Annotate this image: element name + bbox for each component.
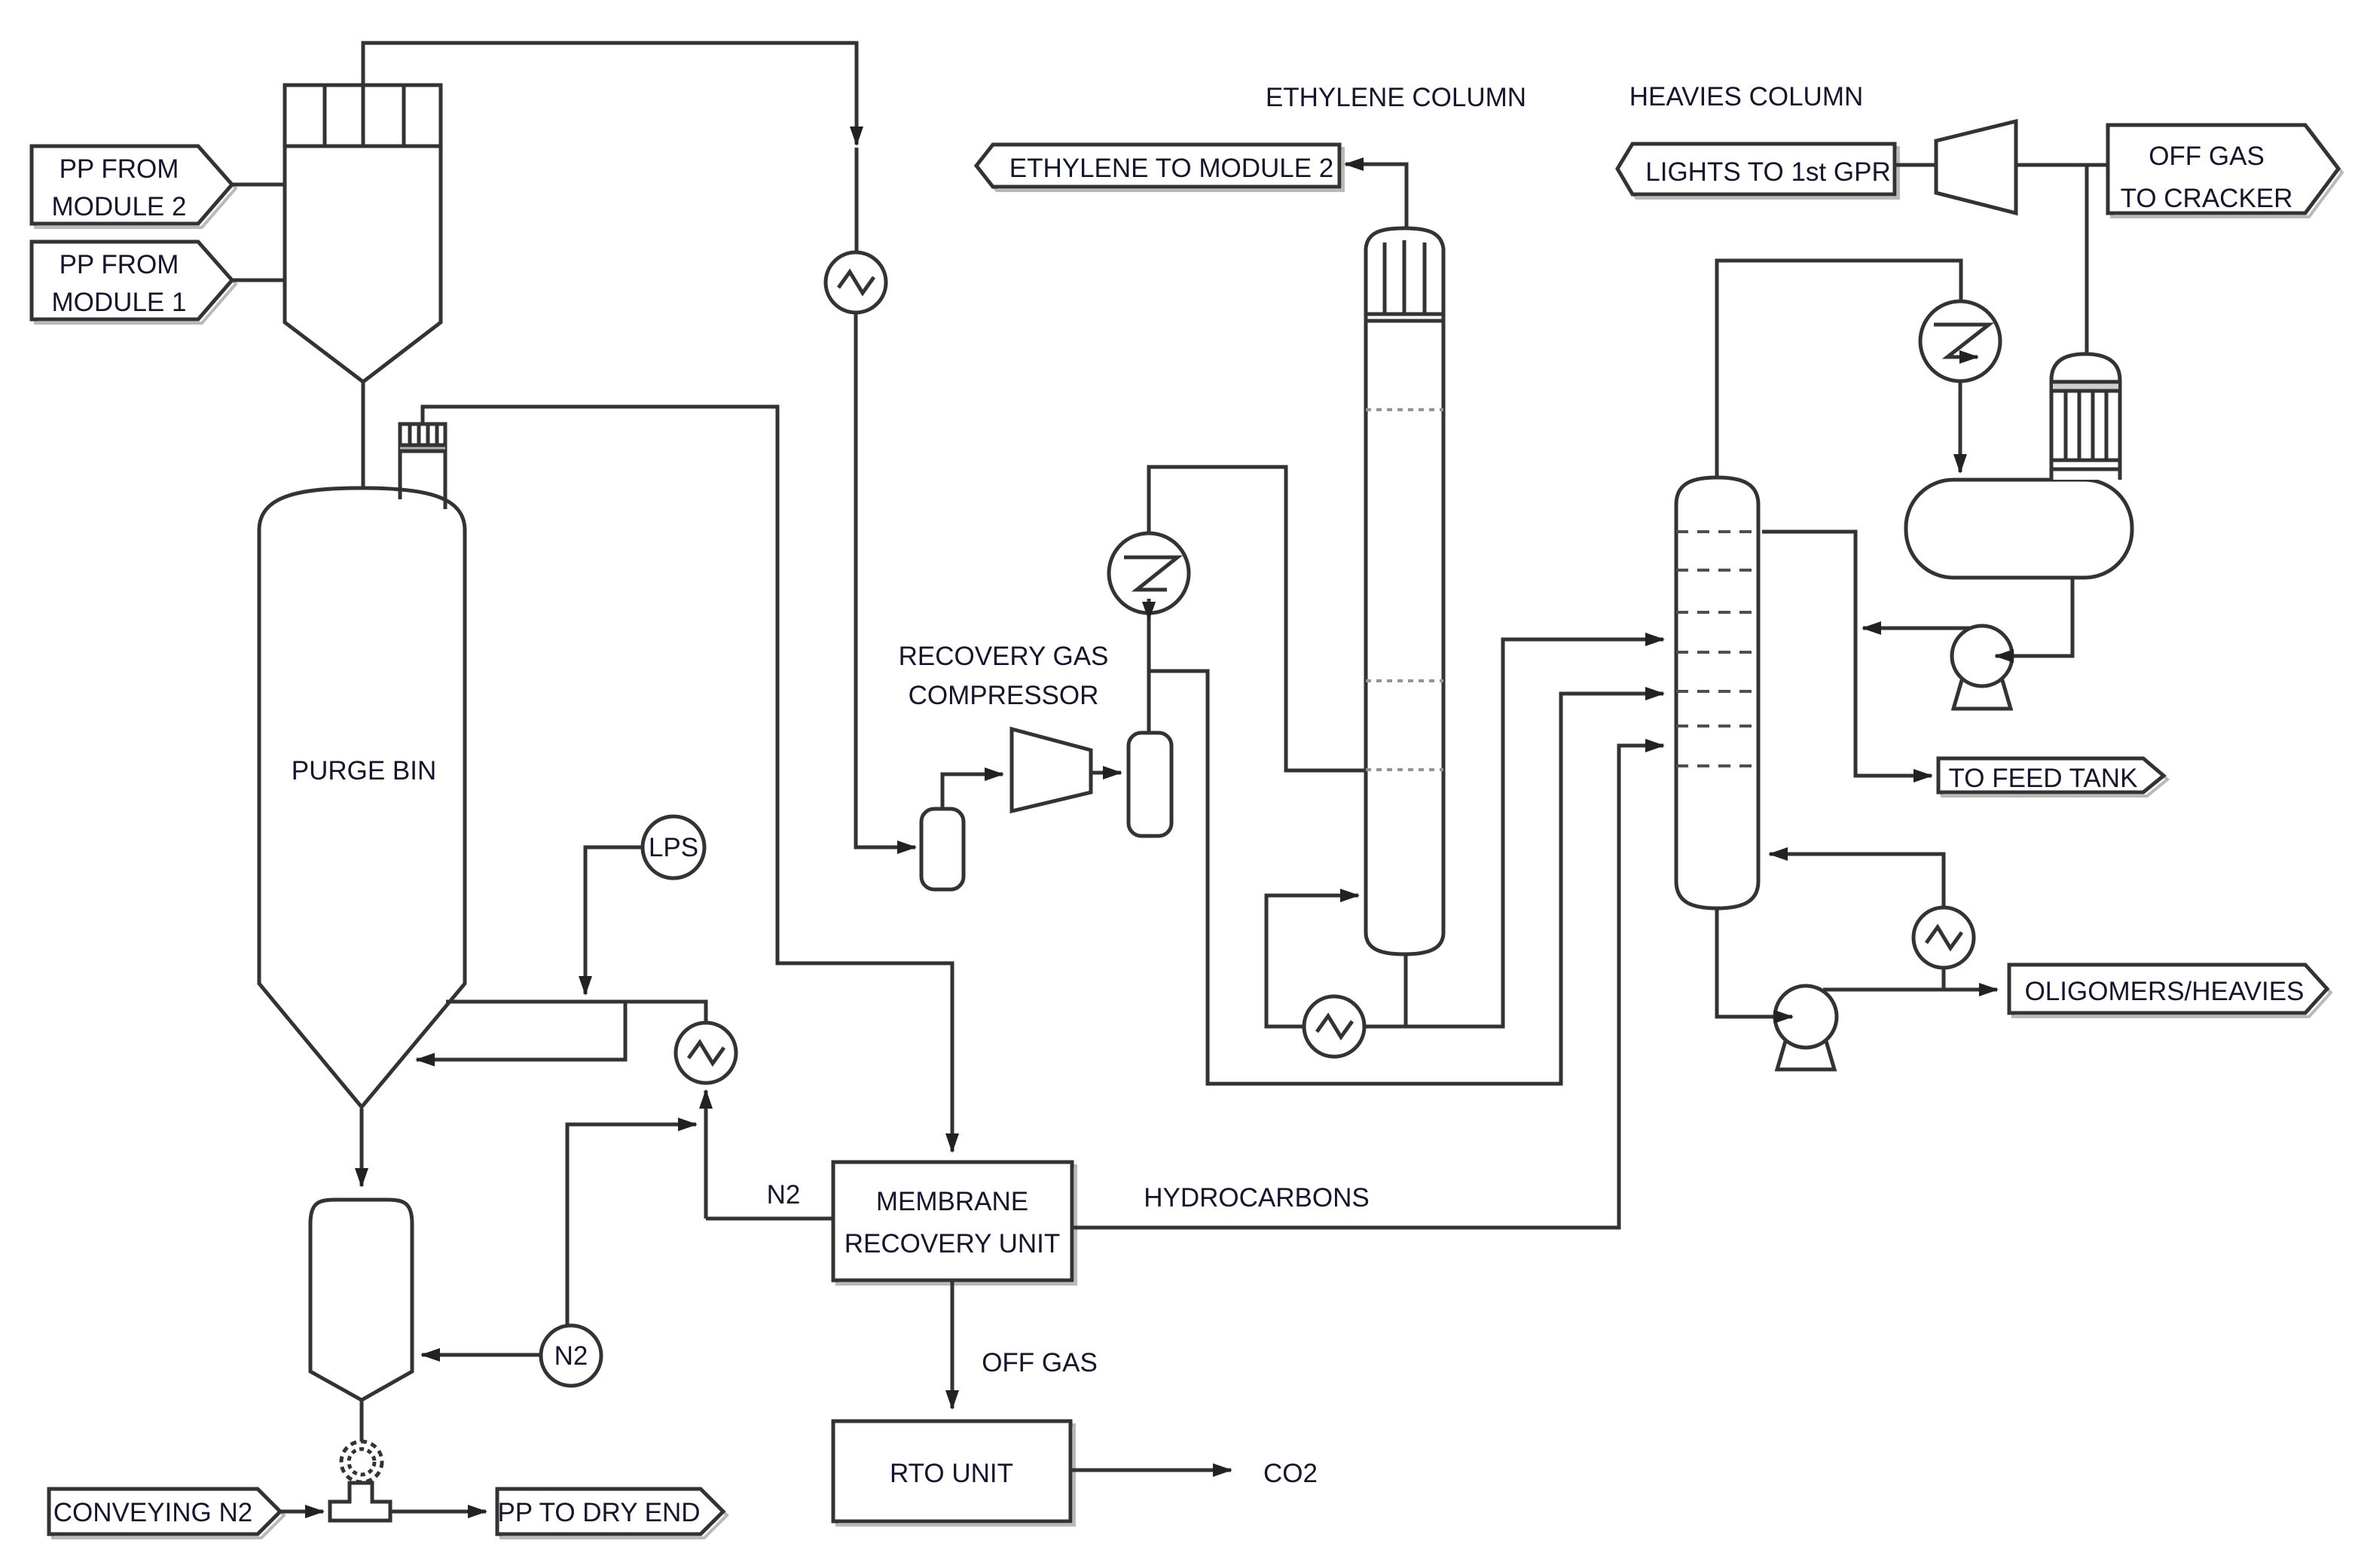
svg-text:OFF GAS: OFF GAS — [982, 1348, 1098, 1377]
svg-text:COMPRESSOR: COMPRESSOR — [909, 681, 1099, 710]
svg-text:ETHYLENE COLUMN: ETHYLENE COLUMN — [1266, 83, 1526, 112]
svg-text:ETHYLENE TO MODULE 2: ETHYLENE TO MODULE 2 — [1009, 154, 1334, 183]
svg-text:MODULE 2: MODULE 2 — [52, 192, 187, 221]
svg-text:TO CRACKER: TO CRACKER — [2121, 184, 2293, 213]
svg-text:LPS: LPS — [649, 833, 698, 862]
svg-text:LIGHTS TO 1st GPR: LIGHTS TO 1st GPR — [1645, 157, 1890, 187]
svg-text:OLIGOMERS/HEAVIES: OLIGOMERS/HEAVIES — [2025, 977, 2304, 1006]
svg-text:PP FROM: PP FROM — [60, 154, 179, 184]
svg-text:N2: N2 — [554, 1341, 588, 1371]
svg-text:RECOVERY UNIT: RECOVERY UNIT — [845, 1229, 1061, 1258]
svg-text:RECOVERY GAS: RECOVERY GAS — [899, 642, 1109, 671]
svg-text:MODULE 1: MODULE 1 — [52, 288, 187, 317]
svg-text:HEAVIES COLUMN: HEAVIES COLUMN — [1629, 82, 1864, 111]
svg-text:CONVEYING N2: CONVEYING N2 — [53, 1498, 253, 1527]
svg-text:N2: N2 — [767, 1180, 801, 1210]
svg-text:PP FROM: PP FROM — [60, 250, 179, 279]
svg-text:TO FEED TANK: TO FEED TANK — [1949, 764, 2138, 793]
svg-text:OFF GAS: OFF GAS — [2149, 142, 2265, 171]
svg-text:PURGE BIN: PURGE BIN — [292, 756, 437, 786]
svg-text:MEMBRANE: MEMBRANE — [876, 1187, 1028, 1216]
svg-text:RTO UNIT: RTO UNIT — [890, 1459, 1013, 1488]
svg-text:HYDROCARBONS: HYDROCARBONS — [1144, 1183, 1369, 1213]
svg-text:PP TO DRY END: PP TO DRY END — [497, 1498, 700, 1527]
svg-text:CO2: CO2 — [1263, 1459, 1318, 1488]
